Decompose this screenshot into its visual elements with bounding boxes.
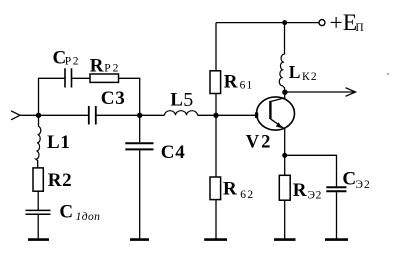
svg-text:К2: К2 xyxy=(302,71,318,83)
svg-text:L1: L1 xyxy=(47,132,71,153)
svg-text:C: C xyxy=(59,202,73,223)
svg-text:5: 5 xyxy=(183,89,193,111)
svg-text:L: L xyxy=(289,62,301,82)
svg-text:R: R xyxy=(293,180,307,201)
svg-text:Э2: Э2 xyxy=(355,179,370,191)
svg-text:P2: P2 xyxy=(65,56,80,68)
svg-text:R2: R2 xyxy=(48,170,73,191)
svg-text:62: 62 xyxy=(240,189,254,201)
svg-text:Э2: Э2 xyxy=(307,189,322,201)
svg-text:61: 61 xyxy=(240,80,254,92)
svg-text:C4: C4 xyxy=(161,142,186,163)
svg-text:1доп: 1доп xyxy=(76,211,101,223)
svg-text:C3: C3 xyxy=(101,88,126,109)
svg-text:+E: +E xyxy=(330,10,358,36)
svg-text:П: П xyxy=(355,22,363,34)
svg-text:R: R xyxy=(224,72,238,93)
svg-text:L: L xyxy=(170,90,183,111)
svg-text:P2: P2 xyxy=(104,63,120,75)
svg-text:R: R xyxy=(223,179,237,200)
svg-text:V2: V2 xyxy=(246,133,273,153)
svg-text:R: R xyxy=(90,55,104,76)
